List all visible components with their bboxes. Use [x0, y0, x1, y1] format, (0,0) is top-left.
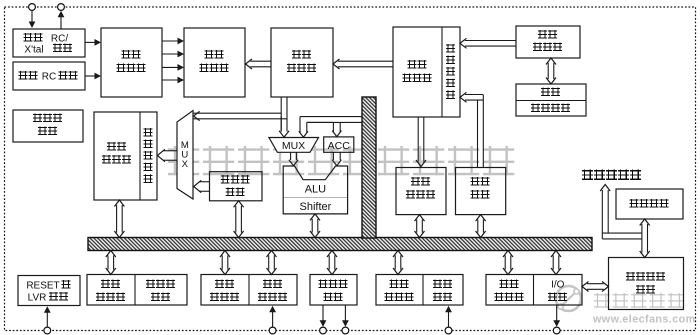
label: config register L2	[96, 293, 105, 302]
wire: operand MUX to ALU	[290, 152, 292, 160]
block: config register | interrupt circuit	[376, 275, 463, 306]
horizontal MUX (ALU operand mux)	[269, 138, 319, 153]
svg-text:X'tal: X'tal	[24, 44, 43, 55]
label: program memory L2	[403, 74, 412, 83]
wire: instruction register to operand MUX	[280, 97, 282, 132]
block: RESET and LVR circuit	[18, 276, 80, 306]
wire: clock gen to decoder ph3	[162, 66, 179, 68]
pin: I/O	[553, 327, 560, 334]
label: data memory L1	[107, 142, 116, 151]
top pin OSC2	[58, 4, 65, 11]
wire: bus <-> timer counter	[268, 255, 270, 269]
wire: memory pointer to RAM address MUX	[199, 181, 209, 183]
wire: program counter to program memory address decoder	[465, 40, 516, 42]
label: watchdog osc L1	[33, 114, 42, 123]
label: memory pointer L1	[221, 175, 230, 184]
wire: clock gen to decoder ph2	[162, 53, 179, 55]
label: config register L2	[385, 293, 394, 302]
svg-text:ALU: ALU	[305, 183, 326, 195]
block: program memory + address decoder strip	[393, 27, 460, 117]
wire: program memory to instruction register	[338, 60, 393, 62]
wire: I/O port to pin	[556, 305, 558, 322]
svg-text:RC/: RC/	[51, 34, 68, 45]
wire: RAM address MUX to data memory address decoder	[163, 150, 177, 152]
label: program memory L1	[408, 60, 417, 69]
pin: buzzer out 1	[320, 327, 327, 334]
block: ACC accumulator	[324, 137, 354, 152]
block: instruction decoder	[184, 28, 245, 97]
label: interrupt circuit L2	[433, 293, 442, 302]
wire: data memory <-> bus	[116, 205, 118, 233]
vertical data bus (hatched bar)	[362, 97, 376, 238]
svg-text:www.elecfans.com: www.elecfans.com	[592, 314, 696, 326]
label: internal RC osc	[19, 71, 28, 80]
block: config register | I/O port	[486, 275, 582, 306]
label: table pointer L2	[471, 190, 480, 199]
wire: branch up to program memory label	[601, 190, 603, 239]
label: buzzer driver L2	[324, 293, 333, 302]
pin: buzzer out 2	[342, 327, 349, 334]
label: data memory address decoder (vertical)	[144, 128, 153, 137]
label: config register L1	[390, 280, 399, 289]
wire: clock gen to decoder ph4	[162, 79, 179, 81]
wire: system osc out to OSC2 pin	[60, 16, 62, 29]
pin: timer input	[269, 327, 276, 334]
svg-text:Shifter: Shifter	[300, 201, 332, 213]
wire: memory pointer <-> bus	[235, 206, 237, 233]
wire: data bus feedback to operand MUX and ACC	[300, 116, 362, 118]
wire: buzzer to pin 2	[344, 305, 346, 322]
wire: instruction register to decoder	[250, 60, 271, 62]
block: stack / stack pointer	[516, 84, 586, 116]
wire: ALU <-> bus	[311, 219, 313, 233]
label: program memory address decoder (vertical)	[446, 44, 455, 53]
label: table pointer L1	[471, 177, 480, 186]
label: instruction decoder L2	[200, 64, 209, 73]
vertical MUX (RAM address mux)	[177, 111, 193, 200]
wire: bus <-> config register 2	[221, 255, 223, 269]
label: config register L2	[495, 293, 504, 302]
wire: instr reg branch to RAM address MUX	[193, 112, 281, 114]
label: program counter L1	[538, 30, 547, 39]
wire: table pointer <-> bus	[477, 219, 479, 232]
svg-text:RESET: RESET	[26, 281, 59, 292]
label: table register L1	[411, 177, 420, 186]
label: timer counter L2	[258, 293, 267, 302]
wire: buzzer to pin 1	[322, 305, 324, 322]
wire: bus <-> buzzer driver	[328, 255, 330, 269]
block: config register | watchdog clock	[87, 275, 187, 306]
main data bus (hatched bar)	[88, 238, 592, 251]
wire: int RC osc to clock gen	[85, 75, 96, 77]
top pin OSC1	[29, 4, 36, 11]
watermark: hangzhou company name	[168, 146, 199, 175]
wire: bus <-> I/O port	[552, 255, 554, 269]
label: option config	[630, 199, 639, 208]
wire: option config <-> device programming circuit	[641, 224, 643, 253]
label: watchdog clock L2	[151, 293, 160, 302]
label: stack pointer	[531, 104, 540, 113]
block: table lookup register	[396, 168, 446, 215]
svg-text:RC: RC	[42, 72, 56, 83]
label: device programming L1	[626, 272, 635, 281]
label: timer counter L1	[263, 280, 272, 289]
label: config register L1	[500, 280, 509, 289]
wire: pin to RESET/LVR	[46, 311, 48, 327]
wire: ACC to ALU	[332, 152, 334, 160]
label: config register L2	[210, 293, 219, 302]
block: memory pointer	[210, 172, 263, 201]
block: data memory + address decoder strip	[94, 112, 157, 200]
block: config register | timer counter	[201, 275, 297, 306]
label: stack	[541, 88, 550, 97]
wire: program memory down to table lookup register	[417, 117, 419, 162]
label: instruction register L2	[287, 64, 296, 73]
block: ALU / Shifter with input notch	[283, 166, 347, 214]
label: data memory L2	[102, 155, 111, 164]
wire: clock gen to decoder ph1	[162, 40, 179, 42]
watermark: elecfans brand characters	[594, 293, 610, 308]
wire: bus <-> config register 4	[504, 255, 506, 269]
label: instruction decoder L1	[205, 50, 214, 59]
label: watchdog clock L1	[146, 280, 155, 289]
svg-text:I/O: I/O	[551, 280, 565, 291]
label: config register L1	[215, 280, 224, 289]
label: program memory (floating text)	[582, 170, 593, 180]
wire: OSC1 pin into system RC/Xtal osc	[31, 11, 33, 24]
block: option config	[616, 189, 683, 219]
svg-text:ACC: ACC	[328, 140, 351, 152]
block: buzzer driver	[310, 275, 357, 306]
wire: pin to timer counter	[272, 311, 274, 327]
wire: bus <-> config register 3	[394, 255, 396, 269]
wire: table pointer up to program memory address decoder	[465, 94, 483, 96]
block: clock generator	[101, 28, 162, 97]
label: system RC/Xtal osc	[24, 33, 33, 42]
wire: bus <-> config register 1	[107, 255, 109, 269]
label: program counter L2	[533, 43, 542, 52]
label: buzzer driver L1	[319, 280, 328, 289]
label: instruction register L1	[292, 50, 301, 59]
svg-text:MUX: MUX	[282, 140, 305, 152]
svg-text:X: X	[182, 159, 189, 170]
block: internal RC oscillator	[13, 62, 85, 90]
watermark: elecfans logo	[556, 286, 581, 311]
label: config register L1	[101, 280, 110, 289]
wire: pin to interrupt circuit	[448, 311, 450, 327]
label: memory pointer L2	[226, 188, 235, 197]
label: clock generator L1	[122, 50, 131, 59]
block: table lookup pointer	[456, 168, 506, 215]
wire: program counter <-> stack	[547, 63, 549, 79]
pin: RESET	[44, 327, 51, 334]
svg-text:LVR: LVR	[28, 293, 47, 304]
label: interrupt circuit L1	[433, 280, 442, 289]
block: instruction register	[271, 28, 333, 97]
label: clock generator L2	[117, 64, 126, 73]
block: system RC/Xtal oscillator	[13, 29, 85, 57]
label: watchdog osc L2	[38, 127, 47, 136]
label: device programming L2	[636, 285, 645, 294]
block: watchdog oscillator	[13, 110, 83, 142]
wire: I/O port <-> device programming circuit	[587, 283, 604, 285]
block: program counter	[516, 26, 580, 58]
wire: sys osc to clock gen	[85, 41, 96, 43]
label: table register L2	[406, 190, 415, 199]
block: device programming circuit	[609, 258, 684, 310]
pin: interrupt input	[445, 327, 452, 334]
wire: table register <-> bus	[416, 219, 418, 232]
